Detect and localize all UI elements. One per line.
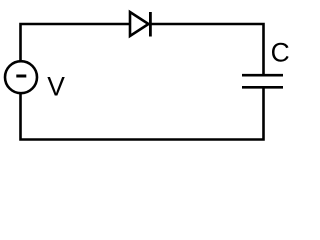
- svg-text:C: C: [271, 38, 290, 68]
- svg-text:V: V: [47, 71, 65, 101]
